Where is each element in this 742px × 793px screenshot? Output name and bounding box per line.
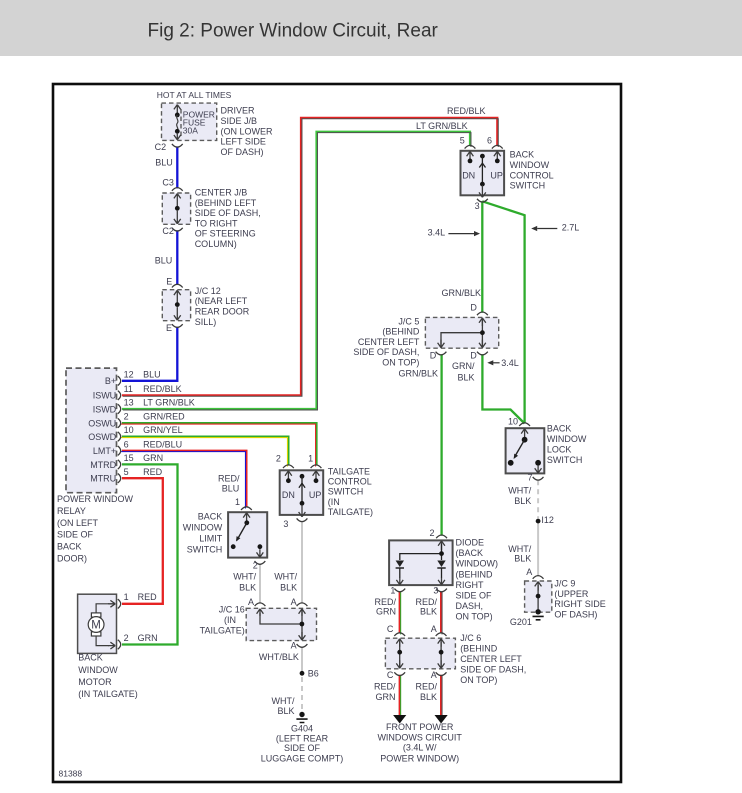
wire RED/BLK: J/C6 A to front power windows circuit (440, 675, 442, 716)
svg-text:RED/: RED/ (415, 682, 437, 692)
motor pin 2 (118, 640, 121, 649)
wire BLU: center J/B C2 to J/C12 E (176, 230, 178, 285)
svg-text:GRN/RED: GRN/RED (143, 412, 185, 422)
svg-text:POWER WINDOW: POWER WINDOW (57, 494, 133, 504)
svg-text:B+: B+ (105, 376, 116, 386)
svg-text:GRN: GRN (376, 606, 396, 616)
svg-text:DN: DN (282, 490, 295, 500)
svg-text:LT GRN/BLK: LT GRN/BLK (143, 398, 195, 408)
svg-text:DN: DN (462, 171, 475, 181)
svg-text:6: 6 (487, 136, 492, 146)
svg-text:(UPPER: (UPPER (554, 589, 589, 599)
svg-text:(ON LEFT: (ON LEFT (57, 518, 99, 528)
svg-text:GRN/BLK: GRN/BLK (398, 369, 438, 379)
wire WHT/BLK: splice B6 to ground G404 (dashed) (301, 677, 303, 711)
wire GRN/RED: relay pin 2 to tailgate switch pin 1 (122, 423, 317, 466)
svg-text:LUGGAGE COMPT): LUGGAGE COMPT) (261, 754, 344, 764)
svg-text:SIDE OF DASH,: SIDE OF DASH, (460, 664, 526, 674)
svg-text:TAILGATE: TAILGATE (328, 467, 370, 477)
wire RED: relay pin 5 to motor pin 1 (122, 478, 163, 604)
svg-text:(BACK: (BACK (456, 548, 484, 558)
svg-text:A: A (431, 670, 437, 680)
svg-text:RED/: RED/ (218, 474, 240, 484)
svg-text:LOCK: LOCK (547, 445, 572, 455)
svg-text:A: A (526, 567, 532, 577)
svg-text:I12: I12 (541, 515, 554, 525)
svg-text:SIDE OF: SIDE OF (284, 743, 321, 753)
svg-text:WHT/BLK: WHT/BLK (259, 652, 299, 662)
svg-text:DOOR): DOOR) (57, 554, 87, 564)
relay pin 11 ISWU (118, 391, 121, 400)
svg-text:B6: B6 (308, 668, 319, 678)
svg-text:12: 12 (124, 369, 134, 379)
splice I12 (536, 519, 541, 524)
svg-text:TO RIGHT: TO RIGHT (195, 218, 238, 228)
svg-text:RED/: RED/ (374, 682, 396, 692)
svg-text:WHT/: WHT/ (272, 696, 295, 706)
svg-text:3: 3 (475, 201, 480, 211)
splice B6 (300, 671, 305, 676)
J/C 5 box (425, 317, 498, 348)
svg-text:COLUMN): COLUMN) (195, 239, 237, 249)
svg-text:BACK: BACK (198, 511, 223, 521)
svg-text:MOTOR: MOTOR (78, 677, 112, 687)
fuse POWER FUSE 30A (174, 105, 181, 116)
svg-text:SIDE OF: SIDE OF (456, 591, 493, 601)
svg-text:C2: C2 (155, 142, 167, 152)
svg-text:(3.4L W/: (3.4L W/ (403, 743, 437, 753)
svg-text:POWER WINDOW): POWER WINDOW) (380, 754, 459, 764)
svg-text:J/C 12: J/C 12 (195, 286, 221, 296)
svg-text:11: 11 (124, 384, 133, 394)
svg-text:ON TOP): ON TOP) (382, 357, 419, 367)
3.4L reference arrow at J/C5 (493, 362, 500, 364)
svg-text:WHT/: WHT/ (508, 544, 531, 554)
svg-text:G201: G201 (510, 617, 532, 627)
svg-text:ON TOP): ON TOP) (456, 612, 493, 622)
svg-text:ISWD: ISWD (93, 404, 117, 414)
svg-text:UP: UP (490, 171, 503, 181)
svg-text:ON TOP): ON TOP) (460, 675, 497, 685)
wire LT GRN/BLK: relay pin 13 to control switch pin 5 (122, 132, 470, 409)
svg-text:30A: 30A (183, 126, 198, 136)
svg-text:2: 2 (124, 633, 129, 643)
svg-text:D: D (470, 303, 477, 313)
svg-text:2: 2 (276, 454, 281, 464)
svg-text:GRN/: GRN/ (452, 361, 475, 371)
svg-text:BLU: BLU (222, 484, 240, 494)
svg-text:SWITCH: SWITCH (547, 455, 583, 465)
svg-text:LIMIT: LIMIT (199, 534, 223, 544)
svg-text:SWITCH: SWITCH (187, 545, 223, 555)
svg-text:GRN: GRN (143, 453, 163, 463)
svg-text:A: A (248, 597, 254, 607)
svg-text:A: A (431, 624, 437, 634)
relay pin 6 LMT+ (118, 446, 121, 455)
svg-text:SWITCH: SWITCH (510, 181, 545, 191)
svg-text:LT GRN/BLK: LT GRN/BLK (416, 121, 468, 131)
wire GRN/BLK: J/C5 bottom right D to lock switch pin 10 (482, 354, 524, 423)
svg-text:DIODE: DIODE (456, 538, 485, 548)
ground G404 (299, 712, 304, 717)
svg-text:(IN: (IN (224, 615, 236, 625)
svg-text:BLU: BLU (155, 255, 173, 265)
svg-text:E: E (166, 323, 172, 333)
svg-text:WHT/: WHT/ (233, 571, 256, 581)
wire WHT/BLK: splice I12 to J/C9 A (537, 524, 539, 577)
svg-text:SIDE J/B: SIDE J/B (221, 116, 258, 126)
svg-text:3.4L: 3.4L (501, 358, 519, 368)
svg-text:(IN TAILGATE): (IN TAILGATE) (78, 689, 138, 699)
motor pin 1 (118, 599, 121, 608)
svg-text:RED/BLK: RED/BLK (447, 106, 486, 116)
svg-text:C: C (387, 670, 394, 680)
relay pin 5 MTRU (118, 474, 121, 483)
svg-text:REAR DOOR: REAR DOOR (195, 307, 250, 317)
svg-text:RIGHT SIDE: RIGHT SIDE (554, 599, 605, 609)
svg-text:WINDOW: WINDOW (510, 160, 550, 170)
wire BLU: fuse C2 to center J/B C3 (176, 146, 178, 188)
wire GRN/YEL: relay pin 10 to tailgate switch pin 2 (122, 437, 288, 466)
svg-text:LMT+: LMT+ (93, 446, 116, 456)
svg-text:WINDOW: WINDOW (183, 523, 223, 533)
title bar (0, 0, 742, 56)
svg-text:FRONT POWER: FRONT POWER (386, 722, 454, 732)
svg-text:(BEHIND: (BEHIND (382, 327, 420, 337)
diagram frame (53, 84, 621, 782)
svg-text:6: 6 (124, 439, 129, 449)
wire GRN/BLK: control switch pin 3 to J/C5 D (3.4L branch) (481, 201, 483, 312)
svg-text:OSWU: OSWU (88, 419, 116, 429)
relay pin 10 OSWD (118, 432, 121, 441)
svg-text:10: 10 (508, 417, 518, 427)
svg-text:D: D (470, 351, 477, 361)
svg-text:BLU: BLU (155, 157, 173, 167)
driver side J/B box (162, 103, 217, 140)
power window relay box (66, 368, 117, 493)
svg-text:(BEHIND LEFT: (BEHIND LEFT (195, 198, 257, 208)
svg-text:15: 15 (124, 453, 134, 463)
svg-text:BACK: BACK (510, 150, 535, 160)
svg-text:GRN: GRN (376, 692, 396, 702)
svg-text:G404: G404 (291, 723, 313, 733)
svg-text:1: 1 (235, 497, 240, 507)
svg-text:WHT/: WHT/ (508, 486, 531, 496)
svg-text:BLU: BLU (143, 369, 161, 379)
relay pin 12 B+ (118, 376, 121, 385)
svg-text:OF DASH): OF DASH) (554, 610, 597, 620)
svg-text:J/C 9: J/C 9 (554, 578, 575, 588)
svg-text:E: E (166, 277, 172, 287)
svg-text:MTRU: MTRU (90, 474, 116, 484)
relay pin 2 OSWU (118, 418, 121, 427)
svg-text:MTRD: MTRD (90, 460, 116, 470)
svg-text:(IN: (IN (328, 497, 340, 507)
front power windows circuit arrows (393, 715, 406, 724)
svg-text:3: 3 (283, 519, 288, 529)
wire RED/BLK: diode pin 3 to J/C6 A (440, 591, 442, 633)
relay pin 13 ISWD (118, 404, 121, 413)
svg-text:RELAY: RELAY (57, 506, 86, 516)
svg-text:7: 7 (528, 473, 533, 483)
svg-text:81388: 81388 (59, 769, 83, 779)
svg-text:RED/BLU: RED/BLU (143, 439, 182, 449)
wire GRN: relay pin 15 to motor pin 2 (122, 464, 178, 644)
svg-text:(BEHIND: (BEHIND (460, 644, 498, 654)
ground G201 (535, 609, 540, 614)
svg-text:(BEHIND: (BEHIND (456, 569, 494, 579)
svg-text:J/C 6: J/C 6 (460, 633, 481, 643)
svg-text:GRN/BLK: GRN/BLK (442, 288, 482, 298)
svg-text:BLK: BLK (280, 582, 297, 592)
svg-text:J/C 16: J/C 16 (219, 605, 245, 615)
svg-text:BACK: BACK (547, 424, 572, 434)
svg-text:BACK: BACK (57, 542, 82, 552)
svg-text:RED: RED (143, 467, 163, 477)
svg-text:WINDOW: WINDOW (547, 434, 587, 444)
svg-text:1: 1 (308, 454, 313, 464)
svg-text:BLK: BLK (420, 606, 437, 616)
svg-text:OSWD: OSWD (88, 432, 116, 442)
wire GRN/BLK: J/C5 bottom left D to diode pin 2 (440, 354, 442, 536)
svg-text:OF STEERING: OF STEERING (195, 229, 256, 239)
center J/B box (162, 193, 190, 224)
svg-text:GRN: GRN (138, 633, 158, 643)
wire RED/BLU: relay pin 6 to limit switch pin 1 (122, 451, 246, 508)
motor M symbol (91, 613, 101, 617)
svg-text:UP: UP (309, 490, 322, 500)
svg-text:GRN/YEL: GRN/YEL (143, 425, 183, 435)
svg-text:Fig 2: Power Window Circuit, R: Fig 2: Power Window Circuit, Rear (148, 21, 439, 42)
svg-text:CENTER J/B: CENTER J/B (195, 188, 248, 198)
wire WHT/BLK: lock switch pin 7 to splice I12 (dashed) (537, 480, 539, 518)
relay pin 15 MTRD (118, 460, 121, 469)
svg-text:J/C 5: J/C 5 (398, 317, 419, 327)
J/C 9 box (525, 581, 552, 612)
svg-text:5: 5 (460, 136, 465, 146)
svg-text:BLK: BLK (420, 692, 437, 702)
svg-text:3: 3 (433, 586, 438, 596)
svg-text:M: M (91, 620, 101, 632)
wire RED/GRN: J/C6 C to front power windows circuit (399, 675, 401, 716)
svg-text:BLK: BLK (277, 706, 294, 716)
J/C 12 box (162, 290, 190, 321)
back window motor box (78, 594, 117, 653)
svg-text:BLK: BLK (514, 496, 531, 506)
svg-text:WINDOW: WINDOW (78, 665, 118, 675)
svg-text:BACK: BACK (78, 653, 103, 663)
svg-text:OF DASH): OF DASH) (221, 147, 264, 157)
svg-text:A: A (291, 597, 297, 607)
svg-text:1: 1 (124, 592, 129, 602)
svg-text:13: 13 (124, 398, 134, 408)
svg-text:SILL): SILL) (195, 317, 217, 327)
svg-text:SWITCH: SWITCH (328, 487, 364, 497)
svg-text:CONTROL: CONTROL (510, 170, 554, 180)
svg-text:CONTROL: CONTROL (328, 477, 372, 487)
svg-text:SIDE OF: SIDE OF (57, 530, 94, 540)
svg-text:HOT AT ALL TIMES: HOT AT ALL TIMES (157, 90, 232, 100)
svg-text:BLK: BLK (457, 372, 474, 382)
svg-text:(LEFT REAR: (LEFT REAR (276, 733, 329, 743)
svg-text:WINDOW): WINDOW) (456, 559, 499, 569)
svg-text:WINDOWS CIRCUIT: WINDOWS CIRCUIT (377, 732, 462, 742)
svg-text:CENTER LEFT: CENTER LEFT (460, 654, 522, 664)
svg-text:ISWU: ISWU (93, 391, 117, 401)
svg-text:TAILGATE): TAILGATE) (328, 507, 373, 517)
svg-text:3.4L: 3.4L (428, 228, 446, 238)
svg-text:CENTER LEFT: CENTER LEFT (358, 337, 420, 347)
svg-text:(ON LOWER: (ON LOWER (221, 126, 274, 136)
svg-text:LEFT SIDE: LEFT SIDE (221, 137, 266, 147)
svg-text:SIDE OF DASH,: SIDE OF DASH, (353, 347, 419, 357)
svg-text:RED: RED (138, 592, 158, 602)
svg-text:DRIVER: DRIVER (221, 106, 256, 116)
svg-text:(NEAR LEFT: (NEAR LEFT (195, 296, 248, 306)
svg-text:C2: C2 (162, 226, 174, 236)
svg-text:2: 2 (430, 528, 435, 538)
wire RED/GRN: diode pin 1 to J/C6 C (399, 591, 401, 633)
svg-text:RED/BLK: RED/BLK (143, 384, 182, 394)
wire WHT/BLK: J/C16 A to splice B6 (301, 647, 303, 671)
svg-text:C: C (387, 624, 394, 634)
connector C2 below fuse box (172, 144, 183, 147)
svg-text:2: 2 (124, 412, 129, 422)
wire RED/BLK: relay pin 11 to control switch pin 6 (122, 118, 497, 396)
svg-text:C3: C3 (162, 177, 174, 187)
svg-text:RIGHT: RIGHT (456, 580, 485, 590)
svg-text:A: A (291, 641, 297, 651)
wire BLU: J/C12 E to relay pin 12 (122, 327, 177, 381)
svg-text:DASH,: DASH, (456, 601, 484, 611)
svg-text:BLK: BLK (239, 582, 256, 592)
svg-text:2: 2 (253, 560, 258, 570)
svg-text:5: 5 (124, 467, 129, 477)
wire WHT/BLK: tailgate switch pin 3 to J/C16 A (301, 521, 303, 604)
svg-text:SIDE OF DASH,: SIDE OF DASH, (195, 208, 261, 218)
svg-text:TAILGATE): TAILGATE) (200, 625, 245, 635)
svg-text:D: D (430, 351, 437, 361)
wire GRN/BLK: control switch pin 3 to lock switch pin 10 (2.7L branch) (482, 201, 524, 423)
svg-text:WHT/: WHT/ (274, 571, 297, 581)
svg-text:BLK: BLK (514, 554, 531, 564)
svg-text:2.7L: 2.7L (562, 223, 580, 233)
wire WHT/BLK: limit switch pin 2 to J/C16 A (259, 564, 261, 604)
svg-text:10: 10 (124, 425, 134, 435)
diode elements (396, 561, 404, 568)
svg-text:1: 1 (390, 586, 395, 596)
